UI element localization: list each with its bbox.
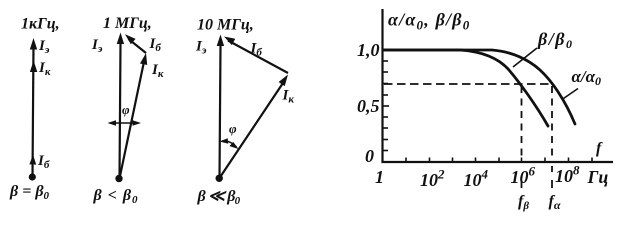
svg-text:1,0: 1,0	[357, 40, 380, 60]
svg-text:0: 0	[365, 146, 374, 166]
svg-text:1 МГц,: 1 МГц,	[103, 15, 152, 32]
svg-text:1: 1	[375, 167, 384, 187]
svg-text:10 МГц,: 10 МГц,	[197, 17, 254, 34]
svg-text:1кГц,: 1кГц,	[21, 16, 60, 33]
svg-text:α/α0, β/β0: α/α0, β/β0	[388, 10, 470, 33]
svg-text:φ: φ	[122, 102, 130, 117]
svg-text:Гц: Гц	[587, 167, 609, 187]
svg-text:φ: φ	[229, 121, 237, 136]
svg-text:β ≪ β0: β ≪ β0	[197, 188, 241, 207]
svg-text:β < β0: β < β0	[93, 187, 139, 206]
svg-text:β = β0: β = β0	[9, 183, 50, 202]
svg-text:0,5: 0,5	[357, 96, 380, 116]
